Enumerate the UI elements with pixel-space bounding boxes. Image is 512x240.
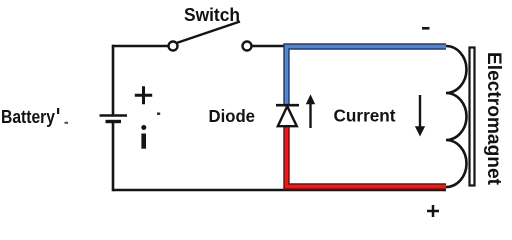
diode D1 cathode bar	[276, 104, 299, 107]
battery plus label	[135, 86, 152, 104]
red wire: diode anode down and right to coil bottom	[287, 127, 447, 187]
diode D1 triangle	[278, 106, 297, 126]
battery B1 long plate (+)	[100, 114, 128, 117]
svg-text:Current: Current	[334, 105, 396, 125]
coil L1 electromagnet winding	[446, 46, 466, 187]
svg-text:Battery: Battery	[1, 107, 55, 127]
wire: battery top to switch left contact	[112, 45, 169, 48]
current arrow up (left of Current label)	[306, 94, 315, 128]
label Switch	[184, 5, 240, 25]
label Diode	[209, 106, 256, 126]
switch blade	[177, 22, 241, 44]
blue wire: node to coil top, down to diode cathode	[287, 47, 447, 105]
svg-text:Diode: Diode	[209, 106, 256, 126]
stray mark under Battery label	[65, 122, 69, 124]
wire: left vertical from battery short plate down to bottom corner	[112, 122, 115, 191]
switch contact right	[243, 42, 252, 51]
label Battery	[1, 107, 55, 127]
svg-text:Switch: Switch	[184, 5, 240, 25]
wire: left vertical from top corner down to battery long plate	[112, 45, 115, 115]
label minus at coil top	[422, 27, 430, 30]
stray mark near battery plate	[157, 113, 160, 115]
label Current	[334, 105, 396, 125]
current arrow down (right of Current label)	[415, 95, 425, 137]
battery label apostrophe tick	[57, 108, 59, 114]
electromagnet core bar	[470, 48, 475, 186]
battery B1 short plate (-)	[106, 120, 122, 123]
wire: switch right contact to node	[251, 45, 290, 48]
wire: bottom horizontal from battery to electromagnet	[113, 189, 446, 192]
battery i label (dot)	[141, 125, 146, 130]
svg-text:Electromagnet: Electromagnet	[483, 52, 505, 185]
label plus at coil bottom	[427, 205, 439, 217]
switch contact left	[169, 42, 178, 51]
label Electromagnet (rotated)	[483, 52, 505, 185]
battery i label (stem)	[141, 134, 146, 149]
